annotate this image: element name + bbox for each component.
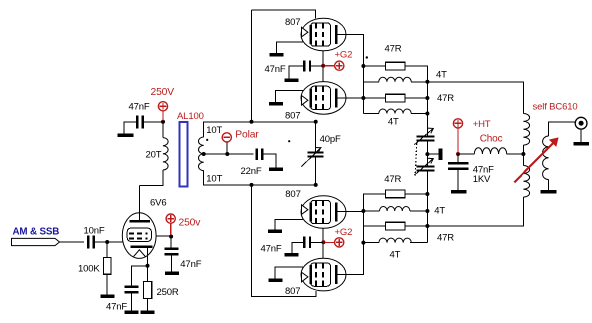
wire rail upper bbox=[251, 10, 253, 122]
svg-text:self BC610: self BC610 bbox=[533, 102, 578, 113]
wire +G2 top bbox=[325, 65, 334, 67]
node bus L2 bbox=[425, 112, 429, 116]
wire secondary top to 40pF node bbox=[252, 121, 316, 123]
resistor 47R R2 bbox=[363, 93, 454, 104]
wire R1 to bus bbox=[405, 66, 427, 82]
variable coupling arrow bbox=[514, 137, 558, 182]
ground cathode cap bbox=[125, 292, 139, 314]
wire R2 to bus bbox=[405, 97, 427, 99]
node out1 bbox=[425, 80, 429, 84]
wire 250V to node bbox=[162, 111, 164, 121]
wire g2 V3-V4 bbox=[322, 228, 324, 259]
ground G2 cap top bbox=[285, 66, 304, 82]
wire bottom to tube4 g1 bbox=[252, 291, 317, 297]
svg-text:+G2: +G2 bbox=[335, 227, 353, 238]
capacitor 40pF variable bbox=[301, 122, 341, 185]
svg-text:47nF: 47nF bbox=[106, 302, 127, 313]
primary winding 20T bbox=[146, 138, 169, 170]
svg-text:22nF: 22nF bbox=[241, 166, 262, 177]
ground cathode V1 bbox=[270, 53, 284, 57]
tube 6V6 bbox=[122, 198, 166, 259]
wire Polar to node bbox=[226, 142, 228, 153]
capacitor variable CV2 bbox=[414, 158, 434, 175]
capacitor 47nF G2 top bbox=[265, 60, 312, 75]
ground 1KV cap bbox=[451, 169, 467, 194]
supply +HT symbol bbox=[453, 119, 490, 130]
stray dot bbox=[366, 56, 368, 58]
node 40pF top bbox=[314, 120, 318, 124]
node A1 bbox=[361, 64, 365, 68]
node bus R4 bbox=[425, 224, 429, 228]
supply +G2 top symbol bbox=[335, 50, 353, 71]
ground split cap bbox=[427, 149, 442, 161]
wire cathode 6V6 down bbox=[146, 248, 148, 266]
wire choke to tank tap bbox=[507, 153, 524, 155]
svg-text:47R: 47R bbox=[385, 44, 402, 55]
resistor 47R R3 bbox=[363, 174, 405, 211]
wire output top bbox=[427, 82, 523, 114]
wire 250v to screen node bbox=[170, 223, 172, 235]
svg-text:47R: 47R bbox=[437, 233, 454, 244]
svg-text:807: 807 bbox=[285, 286, 300, 297]
ground supply cap bbox=[118, 122, 136, 137]
resistor 250R bbox=[143, 266, 179, 299]
capacitor 47nF screen bbox=[164, 237, 201, 271]
node HT bbox=[456, 152, 460, 156]
wire plate 6V6 up bbox=[139, 186, 141, 220]
svg-text:4T: 4T bbox=[390, 250, 401, 261]
wire secondary top bbox=[204, 122, 252, 137]
svg-text:250v: 250v bbox=[179, 217, 202, 228]
svg-text:20T: 20T bbox=[146, 149, 162, 160]
node split cap mid bbox=[425, 152, 429, 156]
node rail top feed bbox=[250, 120, 254, 124]
ground cathode V3 bbox=[268, 229, 282, 233]
resistor 47R R4 bbox=[363, 222, 454, 243]
ground 250R bbox=[141, 299, 155, 315]
wire tap to 22nF bbox=[204, 153, 254, 155]
wire HT node to choke bbox=[458, 153, 474, 155]
svg-text:4T: 4T bbox=[434, 206, 445, 217]
tube 807 V2 bbox=[285, 82, 346, 122]
inductor 4T L3 bbox=[363, 206, 445, 217]
svg-text:47nF: 47nF bbox=[180, 259, 201, 270]
node secondary tap bbox=[202, 152, 206, 156]
node screen 6V6 bbox=[169, 235, 173, 239]
supply Polar symbol bbox=[222, 130, 259, 142]
wire R3 to bus bbox=[405, 193, 427, 195]
transformer core bbox=[180, 122, 188, 186]
inductor 4T L2 bbox=[363, 98, 427, 128]
wire cathode V2 bbox=[276, 90, 304, 102]
capacitor variable CV1 bbox=[414, 128, 434, 145]
svg-text:4T: 4T bbox=[436, 69, 447, 80]
connector output bbox=[575, 117, 587, 129]
wire bus bottom segment bbox=[426, 171, 428, 243]
svg-text:807: 807 bbox=[285, 17, 300, 28]
ground coupling coil bbox=[541, 180, 557, 194]
svg-text:47R: 47R bbox=[437, 93, 454, 104]
svg-text:250V: 250V bbox=[151, 87, 175, 98]
node grid 6V6 bbox=[105, 240, 109, 244]
wire 47nF to G2 node bottom bbox=[311, 241, 323, 243]
tube 807 V4 bbox=[285, 258, 346, 297]
capacitor 47nF G2 bottom bbox=[261, 237, 312, 255]
svg-text:100K: 100K bbox=[78, 264, 100, 275]
ground G2 cap bottom bbox=[285, 242, 304, 256]
node 250V bbox=[161, 120, 165, 124]
secondary winding 10T lower bbox=[198, 154, 222, 185]
svg-text:47nF: 47nF bbox=[265, 64, 286, 75]
svg-text:47R: 47R bbox=[384, 174, 401, 185]
wire +G2 bottom bbox=[325, 241, 334, 243]
svg-text:10T: 10T bbox=[206, 174, 222, 185]
wire top to tube1 g1 bbox=[252, 10, 316, 18]
node rail bottom feed bbox=[250, 183, 254, 187]
node Polar bbox=[225, 152, 229, 156]
svg-text:1KV: 1KV bbox=[473, 174, 491, 185]
node G2 top bbox=[321, 64, 325, 68]
svg-text:6V6: 6V6 bbox=[150, 198, 166, 209]
wire supply cap to node bbox=[144, 121, 164, 123]
wire tank mid bbox=[522, 145, 524, 165]
svg-text:AM & SSB: AM & SSB bbox=[13, 227, 60, 238]
wire anode V2 bbox=[338, 97, 364, 99]
wire bus top segment bbox=[426, 82, 428, 136]
svg-text:10T: 10T bbox=[206, 125, 222, 136]
svg-text:807: 807 bbox=[285, 189, 300, 200]
svg-text:807: 807 bbox=[285, 111, 300, 122]
node bus R3 bbox=[425, 192, 429, 196]
svg-text:AL100: AL100 bbox=[177, 111, 204, 122]
wire input to C 10nF bbox=[60, 241, 85, 243]
wire R4 to bus bbox=[405, 225, 427, 227]
input connector AM & SSB label bbox=[13, 227, 60, 238]
ground cathode V4 bbox=[269, 279, 283, 283]
svg-text:Polar: Polar bbox=[235, 130, 259, 141]
capacitor 10nF bbox=[84, 226, 105, 249]
wire cathode V4 bbox=[275, 267, 303, 279]
wire primary top bbox=[162, 122, 164, 138]
node bus L3 bbox=[425, 209, 429, 213]
wire secondary bottom bbox=[204, 171, 252, 185]
node A2 bbox=[361, 96, 365, 100]
secondary winding 10T upper bbox=[198, 125, 222, 154]
wire 47nF to G2 node top bbox=[311, 65, 323, 67]
wire g2 V1-V2 bbox=[322, 51, 324, 83]
capacitor 22nF bbox=[241, 148, 264, 177]
svg-text:47nF: 47nF bbox=[261, 244, 282, 255]
label AL100 bbox=[177, 111, 204, 122]
gang dotted link bbox=[415, 144, 417, 176]
node A3 bbox=[361, 209, 365, 213]
supply 250V symbol bbox=[151, 87, 175, 111]
svg-text:40pF: 40pF bbox=[320, 134, 341, 145]
wire screen 6V6 to node bbox=[156, 235, 171, 237]
tank coil upper bbox=[523, 114, 529, 146]
capacitor 47nF 1KV bbox=[448, 154, 494, 185]
svg-text:Choc: Choc bbox=[480, 134, 503, 145]
svg-text:47nF: 47nF bbox=[129, 102, 150, 113]
resistor 47R R1 bbox=[363, 44, 405, 70]
tank coil lower bbox=[523, 166, 529, 198]
wire rail lower bbox=[251, 185, 253, 297]
label self BC610 bbox=[533, 102, 578, 113]
svg-text:4T: 4T bbox=[388, 117, 399, 128]
wire coupling top bbox=[549, 122, 575, 136]
node 40pF bottom bbox=[314, 183, 318, 187]
supply +G2 bottom symbol bbox=[335, 227, 353, 247]
wire anode V4 bbox=[338, 211, 364, 275]
wire anode V1 bbox=[338, 35, 364, 99]
wire C 10nF to grid node bbox=[95, 241, 123, 243]
phase dot secondary bbox=[206, 139, 290, 143]
wire secondary bottom to 40pF node bbox=[252, 184, 316, 186]
ground connector bbox=[573, 129, 589, 145]
supply 250v symbol bbox=[166, 214, 201, 228]
svg-text:+HT: +HT bbox=[473, 119, 491, 130]
wire primary bottom to 6V6 plate bbox=[140, 170, 163, 186]
wire +HT down bbox=[457, 128, 459, 153]
node A4 bbox=[361, 241, 365, 245]
resistor 100K bbox=[78, 242, 111, 275]
ground 100K bbox=[101, 274, 115, 298]
node G2 bottom bbox=[321, 240, 325, 244]
inductor 4T L1 bbox=[363, 66, 447, 82]
node bus R2 bbox=[425, 96, 429, 100]
wire output bottom bbox=[427, 197, 523, 226]
wire cathode V3 bbox=[275, 220, 303, 230]
svg-text:250R: 250R bbox=[157, 287, 179, 298]
wire cathode V1 bbox=[276, 42, 303, 53]
wire bus mid segment bbox=[426, 141, 428, 165]
ground screen cap bbox=[165, 254, 179, 275]
inductor Choc bbox=[474, 134, 506, 154]
wire anode V3 bbox=[338, 211, 364, 213]
capacitor 47nF cathode bbox=[106, 266, 147, 313]
input connector J1 bbox=[12, 238, 60, 245]
ground 22nF bbox=[263, 154, 283, 171]
inductor 4T L4 bbox=[363, 238, 427, 260]
tube 807 V1 bbox=[285, 17, 346, 51]
svg-text:10nF: 10nF bbox=[84, 226, 105, 237]
node tank tap bbox=[521, 152, 525, 156]
capacitor 47nF supply bbox=[129, 102, 150, 129]
svg-text:+G2: +G2 bbox=[335, 50, 353, 61]
coupling coil bbox=[543, 136, 549, 180]
tube 807 V3 bbox=[285, 189, 346, 228]
node cathode 6V6 bbox=[146, 264, 150, 268]
ground cathode V2 bbox=[269, 102, 283, 106]
